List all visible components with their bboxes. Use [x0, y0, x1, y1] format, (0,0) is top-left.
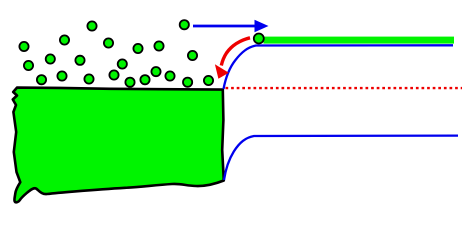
electron dot [24, 61, 33, 70]
blue emission arrow (head) [255, 20, 269, 32]
filled electron-sea region (metal band) [13, 88, 224, 203]
electron dot [154, 41, 163, 50]
electron dot at top of barrier (on green band) [254, 34, 264, 44]
electron dot [75, 56, 84, 65]
valence band curve (lower blue curve) [224, 136, 458, 180]
filled band: thick green line at top right [264, 37, 455, 44]
electron dot [60, 35, 69, 44]
electron dot [188, 51, 197, 60]
electron dot at arrow start [180, 20, 189, 29]
electron dot [140, 75, 149, 84]
electron dot [87, 21, 96, 30]
electron dot [37, 75, 46, 84]
electron dot [151, 67, 160, 76]
electron dot [133, 44, 142, 53]
electron dot [84, 74, 93, 83]
electron dot [165, 71, 174, 80]
electron dot [109, 70, 118, 79]
red return arrow (curved shaft) [221, 38, 250, 66]
red return arrow (head) [215, 64, 229, 79]
electron dot [118, 59, 127, 68]
conduction band curve rising to vacuum level (upper blue curve) [224, 45, 454, 89]
blue emission arrow (shaft) [193, 25, 256, 28]
electron dot [46, 54, 55, 63]
Fermi level: red dotted line [226, 87, 463, 89]
electron dot near barrier [204, 76, 213, 85]
electron dot [57, 71, 66, 80]
electron dot [19, 42, 28, 51]
electron dot [183, 78, 192, 87]
electron dot [104, 38, 113, 47]
electron dot [125, 78, 134, 87]
